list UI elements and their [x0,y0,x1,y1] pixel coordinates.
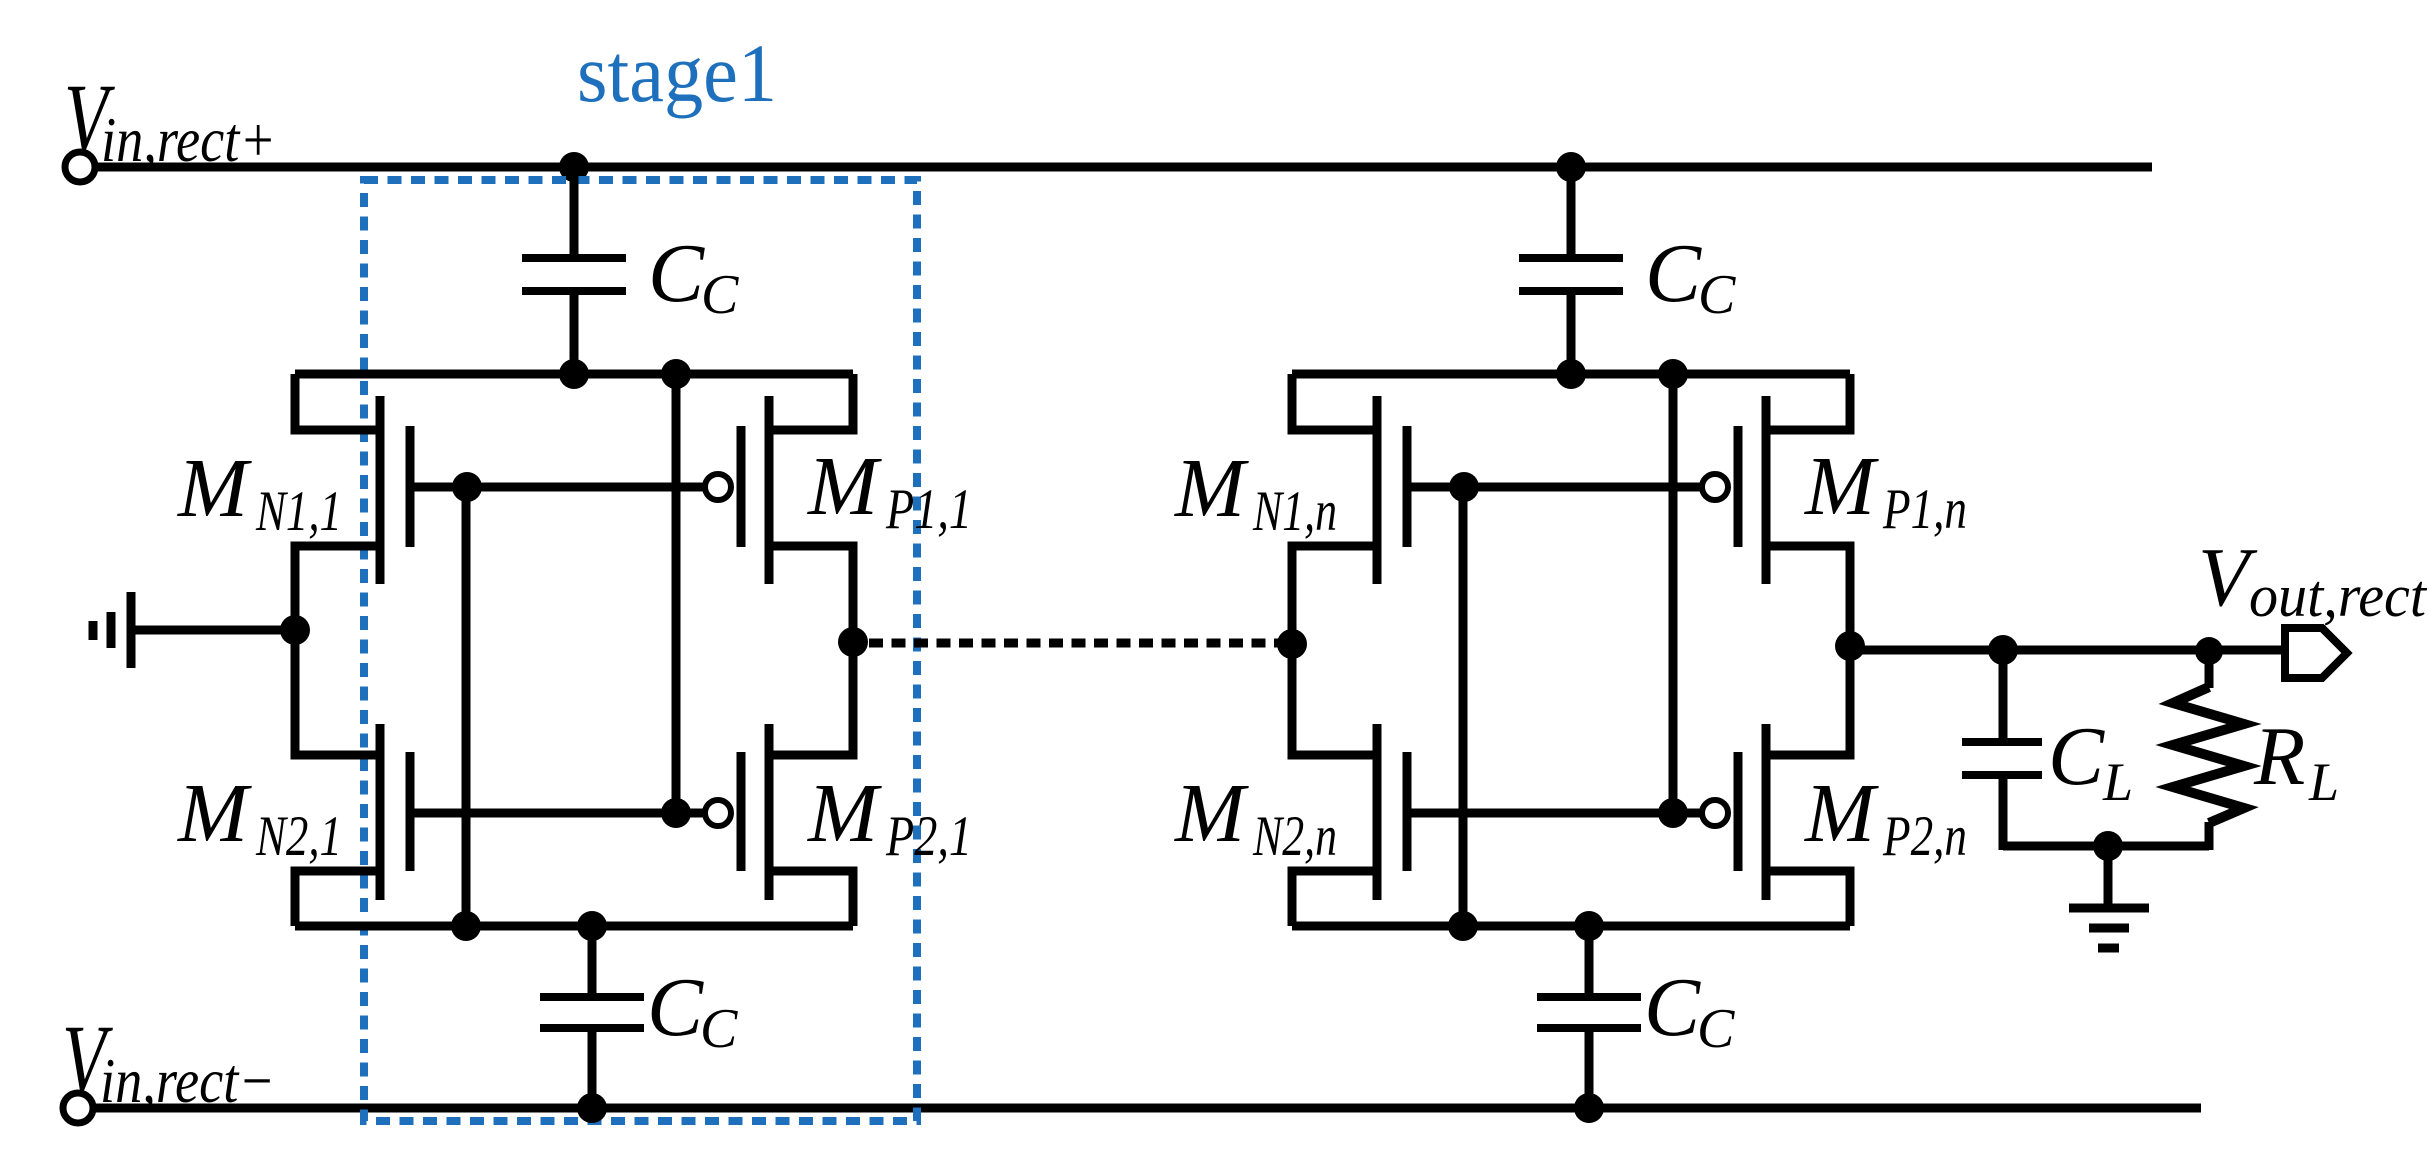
svg-text:L: L [2102,752,2133,812]
svg-text:M: M [1174,767,1249,860]
svg-text:M: M [807,440,882,533]
node top bus cap junction stagen [1556,359,1586,389]
wire top rail V_in,rect+ [95,163,2152,172]
label V_in,rect+ [64,62,276,175]
wire bottom bus stage1 [295,922,853,931]
node bottom rail cap junction stagen [1574,1093,1604,1123]
transistor M_P2,n [1702,640,1850,926]
svg-text:M: M [1174,442,1249,535]
label M_N2,n [1174,767,1337,868]
node top bus cap junction stage1 [559,359,589,389]
wire load bottom [2003,842,2209,851]
svg-text:M: M [177,442,252,535]
node bottom bus cap junction stage1 [577,911,607,941]
svg-text:C: C [647,961,704,1054]
svg-text:P1,n: P1,n [1882,478,1967,541]
stage1 dashed boundary box [364,180,917,1121]
transistor M_P2,1 [705,640,853,926]
terminal V_in,rect- [63,1093,93,1123]
wire cross-couple left stagen [1459,487,1468,926]
svg-text:C: C [1697,998,1735,1060]
wire bottom bus stagen [1292,922,1850,931]
svg-text:C: C [1645,227,1702,320]
label C_C bottom stage1 [647,961,738,1060]
svg-text:C: C [648,227,705,320]
transistor M_N1,1 [295,374,410,634]
svg-text:P1,1: P1,1 [885,478,972,541]
label M_P1,1 [807,440,972,541]
node gate junction bottom stage1 [661,798,691,828]
svg-text:R: R [2253,710,2305,803]
wire top bus stage1 [295,370,853,379]
label M_P2,n [1804,767,1967,868]
wire output V_out,rect [1850,646,2286,655]
svg-text:C: C [700,998,738,1060]
svg-text:N2,1: N2,1 [255,805,342,868]
label M_P1,n [1804,440,1967,541]
label M_N1,1 [177,442,342,543]
node stage-n left mid [1277,629,1307,659]
label C_L [2048,710,2133,812]
svg-text:in,rect+: in,rect+ [101,104,276,175]
label C_C bottom stagen [1644,961,1735,1060]
node load ground junction [2093,831,2123,861]
svg-text:N1,n: N1,n [1252,480,1337,543]
svg-text:M: M [1804,440,1879,533]
node stage1 left mid [280,615,310,645]
node bottom bus cross junction stage1 [451,911,481,941]
node top bus cross-couple junction stage1 [661,359,691,389]
node top rail stage-n junction [1556,152,1586,182]
wire top bus stagen [1292,370,1850,379]
capacitor C_L [1962,650,2042,850]
svg-text:M: M [807,767,882,860]
svg-text:P2,n: P2,n [1882,805,1967,868]
svg-text:C: C [2048,710,2105,803]
svg-text:C: C [701,264,739,326]
capacitor C_C top stage1 [522,167,626,374]
resistor R_L [2173,651,2244,850]
terminal V_in,rect+ [65,152,95,182]
wire cross-couple left stage1 [462,487,471,926]
label M_N1,n [1174,442,1337,543]
terminal arrow V_out,rect [2285,628,2347,678]
transistor M_N2,1 [295,626,410,926]
svg-text:out,rect: out,rect [2249,563,2427,629]
svg-text:M: M [1804,767,1879,860]
node bottom rail cap junction stage1 [577,1093,607,1123]
label V_out,rect [2198,531,2427,629]
wire gate net top stagen [1407,483,1702,492]
label V_in,rect- [62,1003,275,1116]
node bottom bus cross junction stagen [1448,911,1478,941]
svg-text:stage1: stage1 [577,27,777,119]
ground symbol left input [93,592,295,668]
label R_L [2253,710,2339,812]
svg-text:N1,1: N1,1 [255,480,342,543]
node R_L junction [2195,637,2223,665]
wire gate net bottom stage1 [410,809,705,818]
svg-text:N2,n: N2,n [1252,805,1337,868]
wire bottom rail V_in,rect- [93,1104,2201,1113]
node bottom bus cap junction stagen [1574,911,1604,941]
label C_C top stage1 [648,227,739,326]
node C_L junction [1988,635,2018,665]
svg-text:M: M [177,767,252,860]
node top rail stage1 junction [559,152,589,182]
label C_C top stagen [1645,227,1736,326]
transistor M_N2,n [1292,626,1407,926]
ground symbol output [2069,846,2149,948]
wire cross-couple right stage1 [672,374,681,813]
svg-text:P2,1: P2,1 [885,805,972,868]
wire gate net top stage1 [410,483,705,492]
capacitor C_C top stagen [1519,167,1623,374]
node stage1 output [838,627,868,657]
transistor M_N1,n [1292,374,1407,634]
transistor M_P1,1 [705,374,853,650]
node gate junction top stage1 [452,472,482,502]
capacitor C_C bottom stagen [1537,926,1641,1108]
wire dashed inter-stage connection [869,639,1278,648]
svg-text:C: C [1644,961,1701,1054]
node top bus cross-couple junction stagen [1658,359,1688,389]
node stage-n output [1835,631,1865,661]
node gate junction bottom stagen [1658,798,1688,828]
svg-text:in,rect−: in,rect− [100,1045,275,1116]
transistor M_P1,n [1702,374,1850,650]
svg-text:L: L [2308,752,2339,812]
wire cross-couple right stagen [1669,374,1678,813]
svg-text:C: C [1698,264,1736,326]
wire gate net bottom stagen [1407,809,1702,818]
node gate junction top stagen [1449,472,1479,502]
label M_P2,1 [807,767,972,868]
label M_N2,1 [177,767,342,868]
capacitor C_C bottom stage1 [540,926,644,1108]
